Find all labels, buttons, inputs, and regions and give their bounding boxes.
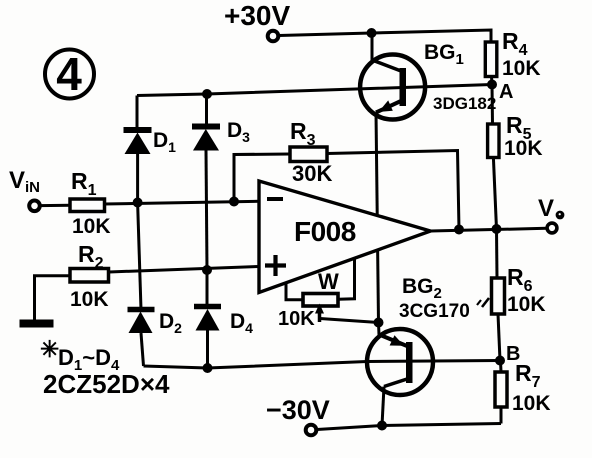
svg-text:+30V: +30V	[224, 0, 290, 31]
wire noninverting input line	[109, 267, 259, 273]
wire R3 feedback left lead	[234, 154, 290, 202]
resistor R3	[290, 147, 327, 162]
svg-text:D4: D4	[230, 310, 253, 336]
junction D1-D2 / inverting line	[133, 198, 143, 208]
svg-text:A: A	[499, 81, 513, 103]
svg-text:W: W	[318, 269, 339, 294]
transistor Q BG2	[367, 323, 433, 426]
wire R3 right lead to output	[327, 151, 459, 230]
svg-text:R1: R1	[71, 168, 97, 199]
wire BG1 emitter down to wiper junction	[376, 113, 379, 323]
svg-text:10K: 10K	[278, 308, 315, 330]
svg-text:10K: 10K	[507, 293, 546, 316]
junction wiper/emitter line	[374, 318, 384, 328]
svg-text:D2: D2	[159, 310, 182, 336]
svg-text:✳: ✳	[40, 336, 59, 362]
svg-text:−30V: −30V	[266, 395, 330, 425]
junction +30V/BG1 collector	[367, 28, 377, 38]
svg-text:R6: R6	[507, 264, 533, 295]
resistor R5	[488, 124, 499, 158]
junction R5-R6/output	[492, 224, 502, 234]
wire node A to R5	[491, 85, 495, 125]
node A	[487, 80, 497, 90]
wire R7 bottom lead	[500, 407, 503, 424]
svg-text:10K: 10K	[504, 137, 543, 160]
svg-text:3DG182: 3DG182	[433, 94, 496, 113]
svg-text:10K: 10K	[72, 215, 111, 238]
wire +30V rail to R4	[279, 30, 491, 42]
svg-text:4: 4	[56, 48, 82, 100]
op-amp U F008	[259, 181, 431, 293]
svg-text:30K: 30K	[292, 161, 332, 186]
terminal -30V	[306, 425, 317, 436]
wire node B to R7	[499, 361, 503, 373]
junction BG2 collector / -30V rail	[377, 421, 387, 431]
diode D1	[124, 96, 152, 203]
svg-text:ViN: ViN	[9, 167, 40, 196]
svg-text:R3: R3	[290, 118, 316, 149]
svg-text:F008: F008	[294, 216, 356, 247]
tick mark left of R6	[482, 298, 489, 307]
svg-text:D1: D1	[153, 129, 176, 155]
resistor R2	[70, 269, 109, 283]
ground	[20, 320, 54, 328]
svg-text:3CG170: 3CG170	[399, 301, 470, 322]
junction R3 lead / inverting line	[229, 197, 239, 207]
terminal Vo	[547, 223, 557, 233]
svg-text:R4: R4	[502, 28, 528, 59]
wire R2 ground lead	[35, 276, 72, 320]
wire bottom diode rail to node B (BG2 base)	[144, 361, 501, 369]
potentiometer W	[286, 259, 355, 322]
figure number circle 4	[45, 48, 94, 100]
wire output junction down to R6	[495, 229, 499, 278]
wire R5 to output line	[493, 158, 496, 230]
resistor R7	[495, 372, 507, 407]
junction D3 / top rail	[202, 89, 212, 99]
svg-text:10K: 10K	[502, 57, 541, 80]
wire R4 to node A	[490, 77, 494, 85]
svg-text:BG2: BG2	[402, 275, 442, 302]
svg-text:BG1: BG1	[424, 41, 464, 68]
diode D2	[128, 203, 155, 367]
wire R6 to node B	[498, 314, 500, 361]
svg-text:D3: D3	[227, 119, 250, 145]
terminal ViN input	[29, 201, 40, 212]
resistor R1	[70, 199, 105, 212]
wire input terminal to R1	[40, 204, 71, 207]
resistor R6	[492, 278, 505, 314]
wire inverting input line	[104, 201, 259, 204]
terminal +30V	[268, 31, 279, 42]
wire top diode rail to node A (BG1 base)	[137, 85, 492, 96]
junction D3-D4 / noninverting line	[202, 265, 212, 275]
transistor Q BG1	[360, 33, 425, 120]
diode D3	[192, 94, 220, 270]
wire -30V rail	[317, 424, 501, 430]
svg-text:10K: 10K	[512, 392, 551, 415]
diode D4	[194, 270, 221, 368]
junction feedback/output	[454, 225, 464, 235]
svg-text:R7: R7	[515, 360, 541, 391]
resistor R4	[485, 42, 497, 77]
svg-text:10K: 10K	[70, 288, 109, 311]
node B	[495, 356, 505, 366]
svg-text:V: V	[538, 195, 554, 222]
junction D4 / bottom rail	[203, 363, 213, 373]
wire output line	[431, 228, 547, 231]
svg-text:2CZ52D×4: 2CZ52D×4	[43, 369, 170, 399]
wire W wiper to emitter line	[320, 319, 379, 323]
